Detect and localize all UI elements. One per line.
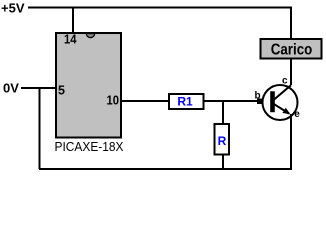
svg-text:10: 10 [107,93,120,107]
svg-text:5: 5 [58,83,65,97]
svg-text:e: e [294,109,300,120]
svg-text:14: 14 [64,33,77,47]
svg-text:PICAXE-18X: PICAXE-18X [55,140,125,154]
svg-text:Carico: Carico [271,42,313,59]
svg-text:c: c [282,75,288,86]
svg-text:b: b [254,91,260,102]
svg-text:0V: 0V [3,81,19,96]
svg-text:R1: R1 [177,95,193,109]
svg-text:R: R [218,134,227,148]
svg-text:+5V: +5V [1,1,25,16]
